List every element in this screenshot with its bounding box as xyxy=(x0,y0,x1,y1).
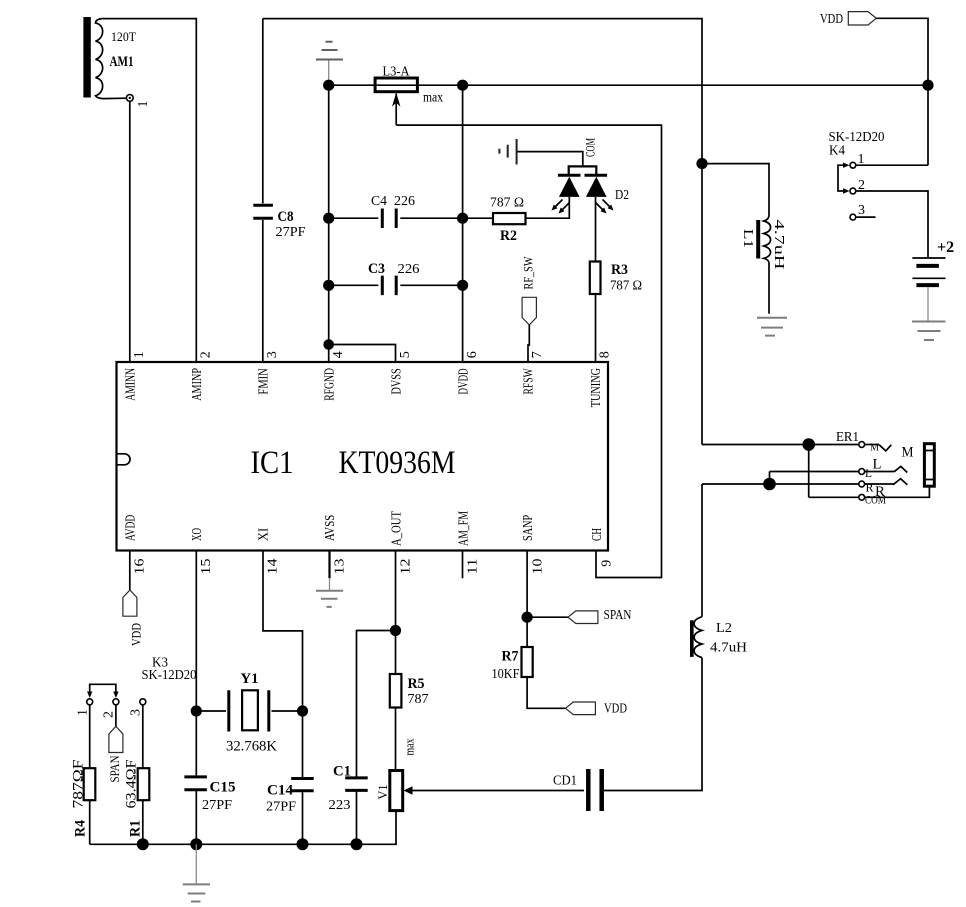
svg-text:L3-A: L3-A xyxy=(383,65,411,80)
antenna coil AM1 ferrite bar xyxy=(83,17,90,98)
svg-text:L: L xyxy=(873,457,882,473)
flag VDD bottom left xyxy=(123,590,137,616)
svg-text:L1: L1 xyxy=(740,229,755,248)
svg-text:V1: V1 xyxy=(375,785,390,800)
resistor R7 xyxy=(522,647,533,677)
wire R2 right to LED xyxy=(526,197,570,218)
node dot L-R junction xyxy=(763,478,776,491)
svg-text:2: 2 xyxy=(199,351,214,358)
svg-text:14: 14 xyxy=(266,559,281,575)
svg-text:CH: CH xyxy=(590,528,605,541)
svg-text:787 Ω: 787 Ω xyxy=(490,196,524,211)
svg-text:C14: C14 xyxy=(267,783,293,799)
svg-text:COM: COM xyxy=(865,493,886,507)
svg-text:R5: R5 xyxy=(408,676,425,692)
svg-text:DVSS: DVSS xyxy=(390,368,405,394)
crystal Y1 xyxy=(196,710,302,712)
wire top rail C8 to far right vertical xyxy=(263,19,702,445)
flag SPAN right xyxy=(568,611,598,624)
node dot A_OUT branch xyxy=(390,625,401,636)
svg-text:CD1: CD1 xyxy=(553,774,577,789)
jack contact L xyxy=(859,469,865,475)
wire pin16 to VDD flag xyxy=(129,551,131,591)
capacitor C14 xyxy=(291,779,314,791)
wire AM1 terminal down to pin1 xyxy=(129,101,131,362)
switch K4 contact 2 xyxy=(850,188,856,194)
wire pin15 XO column xyxy=(195,551,197,777)
switch K3 contact 2 xyxy=(113,699,119,705)
op IC U1 body KT0936M xyxy=(117,362,609,551)
jack contact COM xyxy=(859,494,865,500)
svg-text:5: 5 xyxy=(398,351,413,358)
svg-text:R4: R4 xyxy=(73,820,89,837)
capacitor C8 xyxy=(253,205,273,218)
ground under battery xyxy=(912,322,946,341)
svg-text:C1: C1 xyxy=(333,764,351,780)
svg-text:R1: R1 xyxy=(128,820,144,837)
svg-text:223: 223 xyxy=(329,798,351,813)
svg-text:12: 12 xyxy=(399,559,414,575)
switch K4 pole bracket with arrows xyxy=(838,165,844,191)
svg-text:SANP: SANP xyxy=(521,515,536,541)
svg-text:L2: L2 xyxy=(716,621,732,636)
wire R5 to V1 xyxy=(395,708,397,771)
wire SANP to SPAN flag xyxy=(527,616,568,618)
node dot SANP xyxy=(522,612,533,623)
svg-text:R3: R3 xyxy=(611,262,628,278)
svg-text:27PF: 27PF xyxy=(276,225,306,240)
svg-text:1: 1 xyxy=(76,709,91,716)
wire RF_SW flag to pin7 xyxy=(528,325,529,362)
ground at bus xyxy=(183,884,210,901)
svg-text:SK-12D20: SK-12D20 xyxy=(142,668,197,683)
svg-text:13: 13 xyxy=(333,559,348,575)
wire jack R line xyxy=(702,483,859,485)
wire K3 contact3 to R1 xyxy=(142,705,144,768)
wire pin13 stub xyxy=(328,551,330,579)
resistor R5 xyxy=(390,674,402,708)
ground under L1 xyxy=(757,318,787,336)
wire main horizontal rail y85 xyxy=(329,84,928,86)
svg-text:AVDD: AVDD xyxy=(124,515,139,541)
svg-text:226: 226 xyxy=(394,194,415,209)
switch K3 pole bracket with arrows xyxy=(90,684,116,692)
svg-text:SPAN: SPAN xyxy=(107,755,122,783)
svg-text:FMIN: FMIN xyxy=(257,368,272,394)
svg-text:120T: 120T xyxy=(111,29,136,44)
svg-text:10KF: 10KF xyxy=(492,667,520,682)
svg-text:XI: XI xyxy=(257,528,272,541)
resistor R2 xyxy=(493,213,526,224)
wire bus ground stem xyxy=(195,844,197,884)
svg-text:226: 226 xyxy=(398,262,420,277)
inductor L1 windings xyxy=(764,215,771,263)
LED D2 right triangle xyxy=(586,177,607,197)
wire pin13 ground stem xyxy=(329,578,331,591)
inductor L1 core bar xyxy=(756,220,760,259)
wire branch to C1 xyxy=(357,631,396,778)
wire D2 right cathode to R3 xyxy=(595,197,597,262)
wire R4 to bus xyxy=(89,800,91,844)
svg-text:27PF: 27PF xyxy=(266,800,296,815)
svg-text:C15: C15 xyxy=(210,780,236,796)
svg-text:32.768K: 32.768K xyxy=(226,739,277,755)
wire AM1 top to pin2 xyxy=(102,19,197,362)
ground (sideways, left of D2 COM) xyxy=(518,152,583,167)
svg-text:ER1: ER1 xyxy=(836,430,859,445)
svg-text:8: 8 xyxy=(598,351,613,358)
LED D2 cathode bars xyxy=(558,174,607,177)
node dot pin4 xyxy=(323,339,334,350)
svg-text:3: 3 xyxy=(129,709,144,716)
wire pin3 column upper xyxy=(262,19,264,204)
svg-text:63.4ΩF: 63.4ΩF xyxy=(124,760,140,809)
wire K3 contact1 to R4 xyxy=(89,705,91,768)
svg-text:27PF: 27PF xyxy=(202,798,232,813)
capacitor C15 xyxy=(184,777,207,790)
svg-text:R7: R7 xyxy=(502,649,519,665)
resistor R1 xyxy=(138,768,150,800)
dual LED D2 common bracket xyxy=(569,166,597,175)
wire jack COM line xyxy=(809,486,930,497)
wire L1 to ground xyxy=(768,263,770,314)
svg-text:787ΩF: 787ΩF xyxy=(71,760,87,809)
svg-text:2: 2 xyxy=(102,711,117,718)
node dot Y1 left xyxy=(191,705,202,716)
svg-text:9: 9 xyxy=(600,560,615,567)
svg-text:787: 787 xyxy=(408,692,429,707)
wire jack M line xyxy=(702,444,859,446)
wire pin12 A_OUT column xyxy=(395,551,397,675)
svg-text:+2: +2 xyxy=(937,239,954,256)
wire R2 left xyxy=(463,217,493,219)
resistor R3 xyxy=(590,262,601,295)
wire ground bus xyxy=(90,811,396,845)
wire L1 branch xyxy=(702,164,769,215)
svg-text:C4: C4 xyxy=(371,194,387,209)
node dot at (329,85) xyxy=(323,80,334,91)
svg-text:RFSW: RFSW xyxy=(522,368,537,395)
wire R7 to VDD flag xyxy=(527,677,565,708)
svg-text:4.7uH: 4.7uH xyxy=(710,641,747,656)
node dot bus C1 xyxy=(351,838,363,850)
capacitor CD1 xyxy=(588,769,601,811)
svg-text:787 Ω: 787 Ω xyxy=(610,279,642,294)
flag VDD right xyxy=(566,702,596,715)
node dot at (928,85) xyxy=(922,80,933,91)
variable inductor L3-A xyxy=(375,78,417,92)
capacitor C1 xyxy=(345,778,368,791)
node dot C3 right xyxy=(457,280,468,291)
node dot Y1 right xyxy=(297,705,308,716)
svg-text:3: 3 xyxy=(858,203,865,218)
node dot at (462.5,85) xyxy=(457,80,468,91)
svg-text:XO: XO xyxy=(190,528,205,541)
svg-text:C3: C3 xyxy=(368,261,385,277)
svg-text:RFGND: RFGND xyxy=(323,368,338,401)
switch K3 contact 1 xyxy=(87,699,93,705)
node dot C4 right xyxy=(457,213,468,224)
node dot bus R1 xyxy=(137,838,149,850)
svg-text:KT0936M: KT0936M xyxy=(339,445,456,481)
svg-text:SPAN: SPAN xyxy=(604,608,632,623)
svg-text:7: 7 xyxy=(530,351,545,358)
wire wiper line to right vertical xyxy=(396,125,661,577)
svg-text:COM: COM xyxy=(583,138,598,157)
AM1 terminal circle pin 1 xyxy=(126,95,133,102)
LED D2 right emission arrows xyxy=(596,200,612,212)
svg-text:K4: K4 xyxy=(829,144,845,159)
capacitor C3 xyxy=(329,284,463,286)
svg-text:IC1: IC1 xyxy=(251,445,294,481)
svg-text:16: 16 xyxy=(133,559,148,575)
wire R1 to bus xyxy=(142,800,144,844)
flag SPAN at K3 xyxy=(109,726,123,752)
wire CD1 right to vertical xyxy=(604,484,702,791)
svg-text:VDD: VDD xyxy=(129,623,144,646)
svg-text:M: M xyxy=(902,445,914,461)
LED D2 left triangle xyxy=(559,177,580,197)
svg-text:AM1: AM1 xyxy=(110,54,134,70)
svg-text:max: max xyxy=(402,738,417,755)
potentiometer V1 xyxy=(390,771,403,811)
svg-text:4: 4 xyxy=(331,351,346,358)
wire VDD to right vertical xyxy=(876,18,928,165)
inductor L2 core bar xyxy=(690,620,694,657)
wire K4 contact2 to battery xyxy=(856,191,928,257)
svg-text:max: max xyxy=(423,91,443,106)
svg-text:Y1: Y1 xyxy=(241,671,259,687)
node dot C4 left xyxy=(323,213,334,224)
wire pin4 column xyxy=(328,85,330,362)
node dot L1 branch xyxy=(696,158,707,169)
node dot C3 left xyxy=(323,280,334,291)
wire R3 to pin8 xyxy=(595,294,597,362)
wire battery to ground xyxy=(927,287,929,322)
svg-text:D2: D2 xyxy=(615,188,629,203)
jack contact M xyxy=(859,442,865,448)
svg-text:1: 1 xyxy=(136,101,151,108)
node dot bus C15 xyxy=(190,838,202,850)
V1 wiper arrow xyxy=(404,786,413,795)
svg-text:RF_SW: RF_SW xyxy=(521,256,536,290)
wire pin14 XI jog xyxy=(263,551,303,779)
wire pin10 SANP column xyxy=(526,551,528,648)
switch K4 contact 1 xyxy=(850,162,856,168)
svg-text:M: M xyxy=(870,442,879,454)
wire K4 contact1 to vertical xyxy=(856,164,928,166)
svg-text:15: 15 xyxy=(199,559,214,575)
wire C8 to pin3 xyxy=(262,220,264,362)
svg-text:10: 10 xyxy=(531,559,546,575)
switch K3 contact 3 xyxy=(140,699,146,705)
ground at AVSS xyxy=(316,591,343,607)
ground (flipped, above L3-A node) xyxy=(328,60,330,85)
svg-text:4.7uH: 4.7uH xyxy=(771,220,786,270)
jack contact M spring xyxy=(879,445,891,451)
switch K4 contact 3 xyxy=(850,214,856,220)
svg-text:R2: R2 xyxy=(500,228,517,244)
svg-text:DVDD: DVDD xyxy=(457,368,472,394)
svg-text:3: 3 xyxy=(265,351,280,358)
jack contact L spring xyxy=(894,466,907,472)
wire M-COM vertical xyxy=(808,445,810,498)
wire pin6 column xyxy=(462,85,464,362)
wire pin11 stub xyxy=(462,551,464,579)
svg-text:VDD: VDD xyxy=(604,702,627,717)
svg-text:AMINP: AMINP xyxy=(190,368,205,401)
resistor R4 xyxy=(84,768,96,800)
wire wiper to CD1 xyxy=(411,790,584,792)
capacitor C4 xyxy=(329,217,463,219)
svg-text:1: 1 xyxy=(132,351,147,358)
L3-A wiper arrow xyxy=(395,94,397,126)
IC notch xyxy=(117,454,131,465)
antenna coil AM1 windings xyxy=(96,19,127,99)
svg-text:6: 6 xyxy=(465,351,480,358)
wire K3 contact2 to SPAN flag xyxy=(115,705,117,727)
inductor L2 windings xyxy=(694,617,702,658)
svg-text:AMINN: AMINN xyxy=(124,368,139,401)
jack plug body xyxy=(924,444,934,487)
svg-text:VDD: VDD xyxy=(820,12,843,27)
svg-text:L: L xyxy=(865,466,872,480)
svg-text:TUNING: TUNING xyxy=(589,368,604,407)
svg-text:AM_FM: AM_FM xyxy=(457,511,472,546)
svg-text:A_OUT: A_OUT xyxy=(390,511,405,546)
jack contact R spring xyxy=(893,479,907,485)
wire pin4-pin5 connector xyxy=(329,345,396,363)
wire K4 contact3 stub xyxy=(856,216,876,218)
jack contact R xyxy=(859,481,865,487)
svg-text:C8: C8 xyxy=(278,209,294,225)
node dot M-COM junction xyxy=(802,438,815,451)
svg-text:11: 11 xyxy=(466,559,481,575)
LED D2 left emission arrows xyxy=(554,200,570,212)
wire jack L line xyxy=(770,472,859,485)
node dot bus C14 xyxy=(297,838,309,850)
svg-text:AVSS: AVSS xyxy=(323,515,338,541)
